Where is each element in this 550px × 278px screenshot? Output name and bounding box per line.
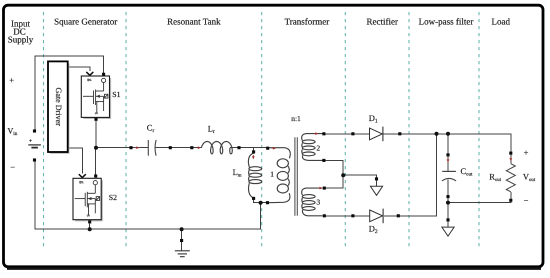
svg-text:Load: Load: [492, 16, 511, 26]
svg-text:2: 2: [316, 143, 320, 152]
section divider 3 dashed line: [261, 12, 263, 249]
D1 cathode port: [398, 132, 401, 135]
transformer secondary winding 2: [302, 140, 315, 144]
Lm bottom port: [252, 197, 255, 200]
transformer core: [295, 137, 297, 215]
diode D2: [370, 210, 383, 222]
red arrow Rout input: [509, 158, 512, 161]
wire: center tap: [325, 160, 343, 188]
Cout bottom port: [446, 195, 449, 198]
svg-text:s: s: [85, 215, 91, 217]
svg-text:s: s: [93, 112, 99, 114]
red arrow winding2 out: [315, 132, 318, 135]
D2 cathode port: [397, 214, 400, 217]
ground (output): [447, 221, 449, 227]
Lm top port: [252, 150, 255, 153]
node Lm bottom rail: [259, 201, 263, 205]
gate driver U1 box: [48, 61, 68, 152]
svg-text:−: −: [10, 162, 15, 172]
red arrow Cr input: [136, 146, 139, 149]
red arrow Lm input: [252, 156, 255, 159]
winding3 top port: [323, 187, 326, 190]
wire: Cout branch: [447, 134, 449, 154]
wire: Cr to Lr: [155, 147, 201, 149]
transformer primary winding 1: [277, 159, 288, 168]
S2 drain port: [94, 174, 97, 177]
S2 source port: [88, 220, 91, 223]
wire: battery top to top rail to S1 drain: [35, 56, 104, 129]
wire: Cout bottom: [447, 179, 449, 195]
wire: winding3 to D2: [325, 215, 369, 217]
svg-text:+: +: [524, 148, 529, 158]
wire: ground stub on bottom rail: [181, 229, 183, 239]
wire: Lm top tap: [253, 148, 255, 151]
red arrow Lr input: [198, 146, 201, 149]
wire: winding2 to D1: [325, 133, 369, 135]
svg-text:Resonant Tank: Resonant Tank: [167, 16, 221, 26]
Cr right port: [169, 146, 172, 149]
wire: Lr to transformer primary port: [230, 147, 268, 149]
winding2 top port: [322, 132, 325, 135]
wire: battery bottom down and bottom rail: [35, 161, 261, 229]
svg-text:Supply: Supply: [8, 34, 34, 44]
wire: center tap to ground: [343, 175, 376, 177]
node D2 output: [435, 132, 439, 136]
svg-text:Low-pass filter: Low-pass filter: [419, 16, 474, 26]
section divider 5 dashed line: [408, 12, 410, 249]
ground port (earth): [180, 239, 183, 242]
capacitor Cr: [147, 140, 149, 156]
wire: S2 source to bottom rail: [89, 223, 91, 229]
S1 source port: [94, 118, 97, 121]
gate arrow S1: [86, 72, 93, 75]
ground port (output): [446, 218, 449, 221]
battery plus mark: [29, 139, 32, 142]
section divider 2 dashed line: [125, 12, 127, 249]
svg-text:n:1: n:1: [291, 114, 301, 123]
resistor Rout: [510, 155, 512, 164]
Rout top port: [509, 152, 512, 155]
primary - port: [266, 201, 269, 204]
svg-text:g: g: [78, 181, 84, 184]
Cout top port: [446, 153, 449, 156]
ground (bottom rail earth): [181, 242, 183, 251]
wire: D1 to output top rail: [383, 134, 511, 152]
svg-text:3: 3: [316, 197, 320, 206]
winding2 bottom port: [322, 159, 325, 162]
node mid (S1-S2 junction): [94, 146, 98, 150]
wire: gate driver to S2 gate: [68, 148, 83, 174]
svg-text:Transformer: Transformer: [285, 16, 330, 26]
capacitor Cout: [442, 170, 456, 172]
node earth rail: [180, 227, 184, 231]
wire: mid rail to Cr: [96, 147, 148, 149]
node S2 source rail: [88, 227, 92, 231]
node Cout bottom: [446, 201, 450, 205]
S1 drain port: [102, 73, 105, 76]
red arrow winding3 out: [320, 187, 323, 190]
Cr left port: [129, 146, 132, 149]
battery + port: [33, 129, 36, 132]
wire: S1 source to mid node: [95, 121, 97, 148]
node Cout top: [446, 132, 450, 136]
ground port (center tap): [375, 177, 378, 180]
battery Vin plates: [28, 144, 41, 146]
transformer secondary winding 3: [302, 195, 315, 199]
wire: D2 up to output rail: [384, 134, 437, 216]
wire: Lm bottom to primary bottom port: [254, 200, 267, 203]
svg-text:S1: S1: [112, 90, 120, 99]
transistor S2: [75, 180, 102, 220]
Lr right port: [237, 146, 240, 149]
red arrow Cout input: [447, 159, 450, 162]
red arrow primary input: [273, 147, 276, 150]
inductor Lr: [201, 142, 232, 154]
gate driver shadow: [50, 64, 69, 153]
ground (center tap): [376, 180, 378, 186]
wire: output return rail: [448, 201, 511, 204]
gate arrow S2: [79, 174, 86, 177]
section divider 4 dashed line: [344, 12, 346, 249]
svg-text:1: 1: [270, 170, 274, 179]
wire: mid node to S2 drain: [95, 148, 97, 175]
svg-text:S2: S2: [109, 193, 117, 202]
diode D1: [370, 128, 383, 140]
winding3 bottom port: [323, 214, 326, 217]
svg-text:Rectifier: Rectifier: [366, 16, 397, 26]
node center tap: [341, 173, 345, 177]
D2 anode port: [351, 214, 354, 217]
svg-text:Gate Driver: Gate Driver: [54, 87, 63, 126]
svg-text:Square Generator: Square Generator: [54, 16, 117, 26]
inductor Lm: [249, 167, 262, 171]
svg-text:+: +: [9, 75, 14, 85]
wire: gate driver to S1 gate: [68, 67, 90, 71]
svg-text:−: −: [524, 195, 529, 205]
Rout bottom port: [509, 199, 512, 202]
battery - port: [33, 158, 36, 161]
primary + port: [266, 147, 269, 150]
section divider 6 dashed line: [478, 12, 480, 249]
section divider 1 dashed line: [43, 12, 45, 249]
Lr left port: [190, 146, 193, 149]
D1 anode port: [351, 132, 354, 135]
transistor S1: [83, 78, 110, 118]
svg-text:g: g: [87, 79, 93, 82]
